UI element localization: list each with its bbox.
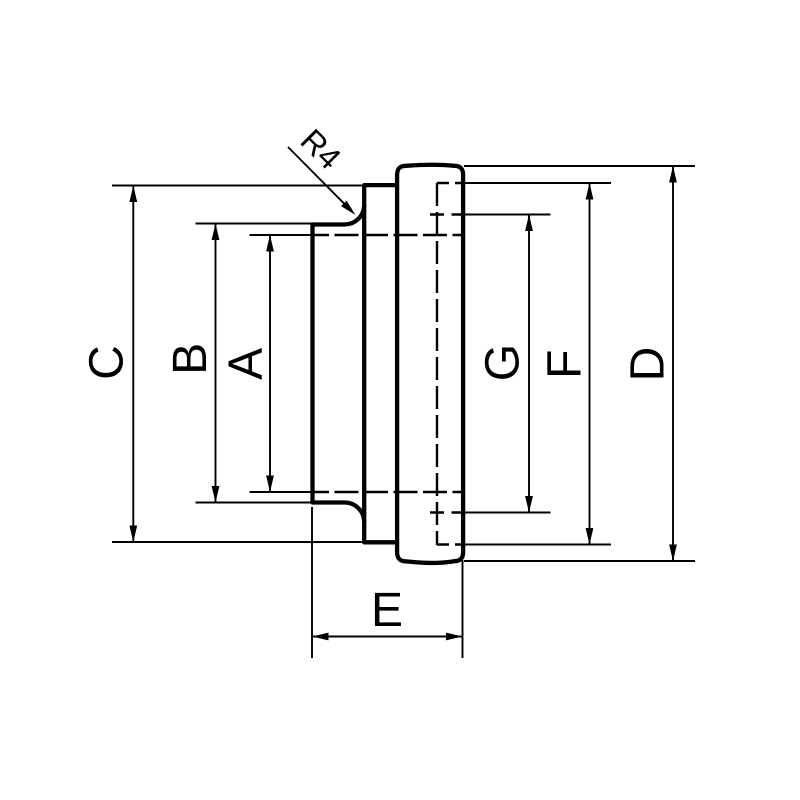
svg-text:C: C <box>81 345 134 380</box>
svg-text:R4: R4 <box>294 122 348 176</box>
svg-text:D: D <box>621 347 674 382</box>
svg-text:E: E <box>371 584 403 637</box>
svg-text:A: A <box>219 348 272 380</box>
svg-text:G: G <box>476 344 529 381</box>
svg-text:F: F <box>538 350 591 379</box>
svg-text:B: B <box>164 343 217 375</box>
